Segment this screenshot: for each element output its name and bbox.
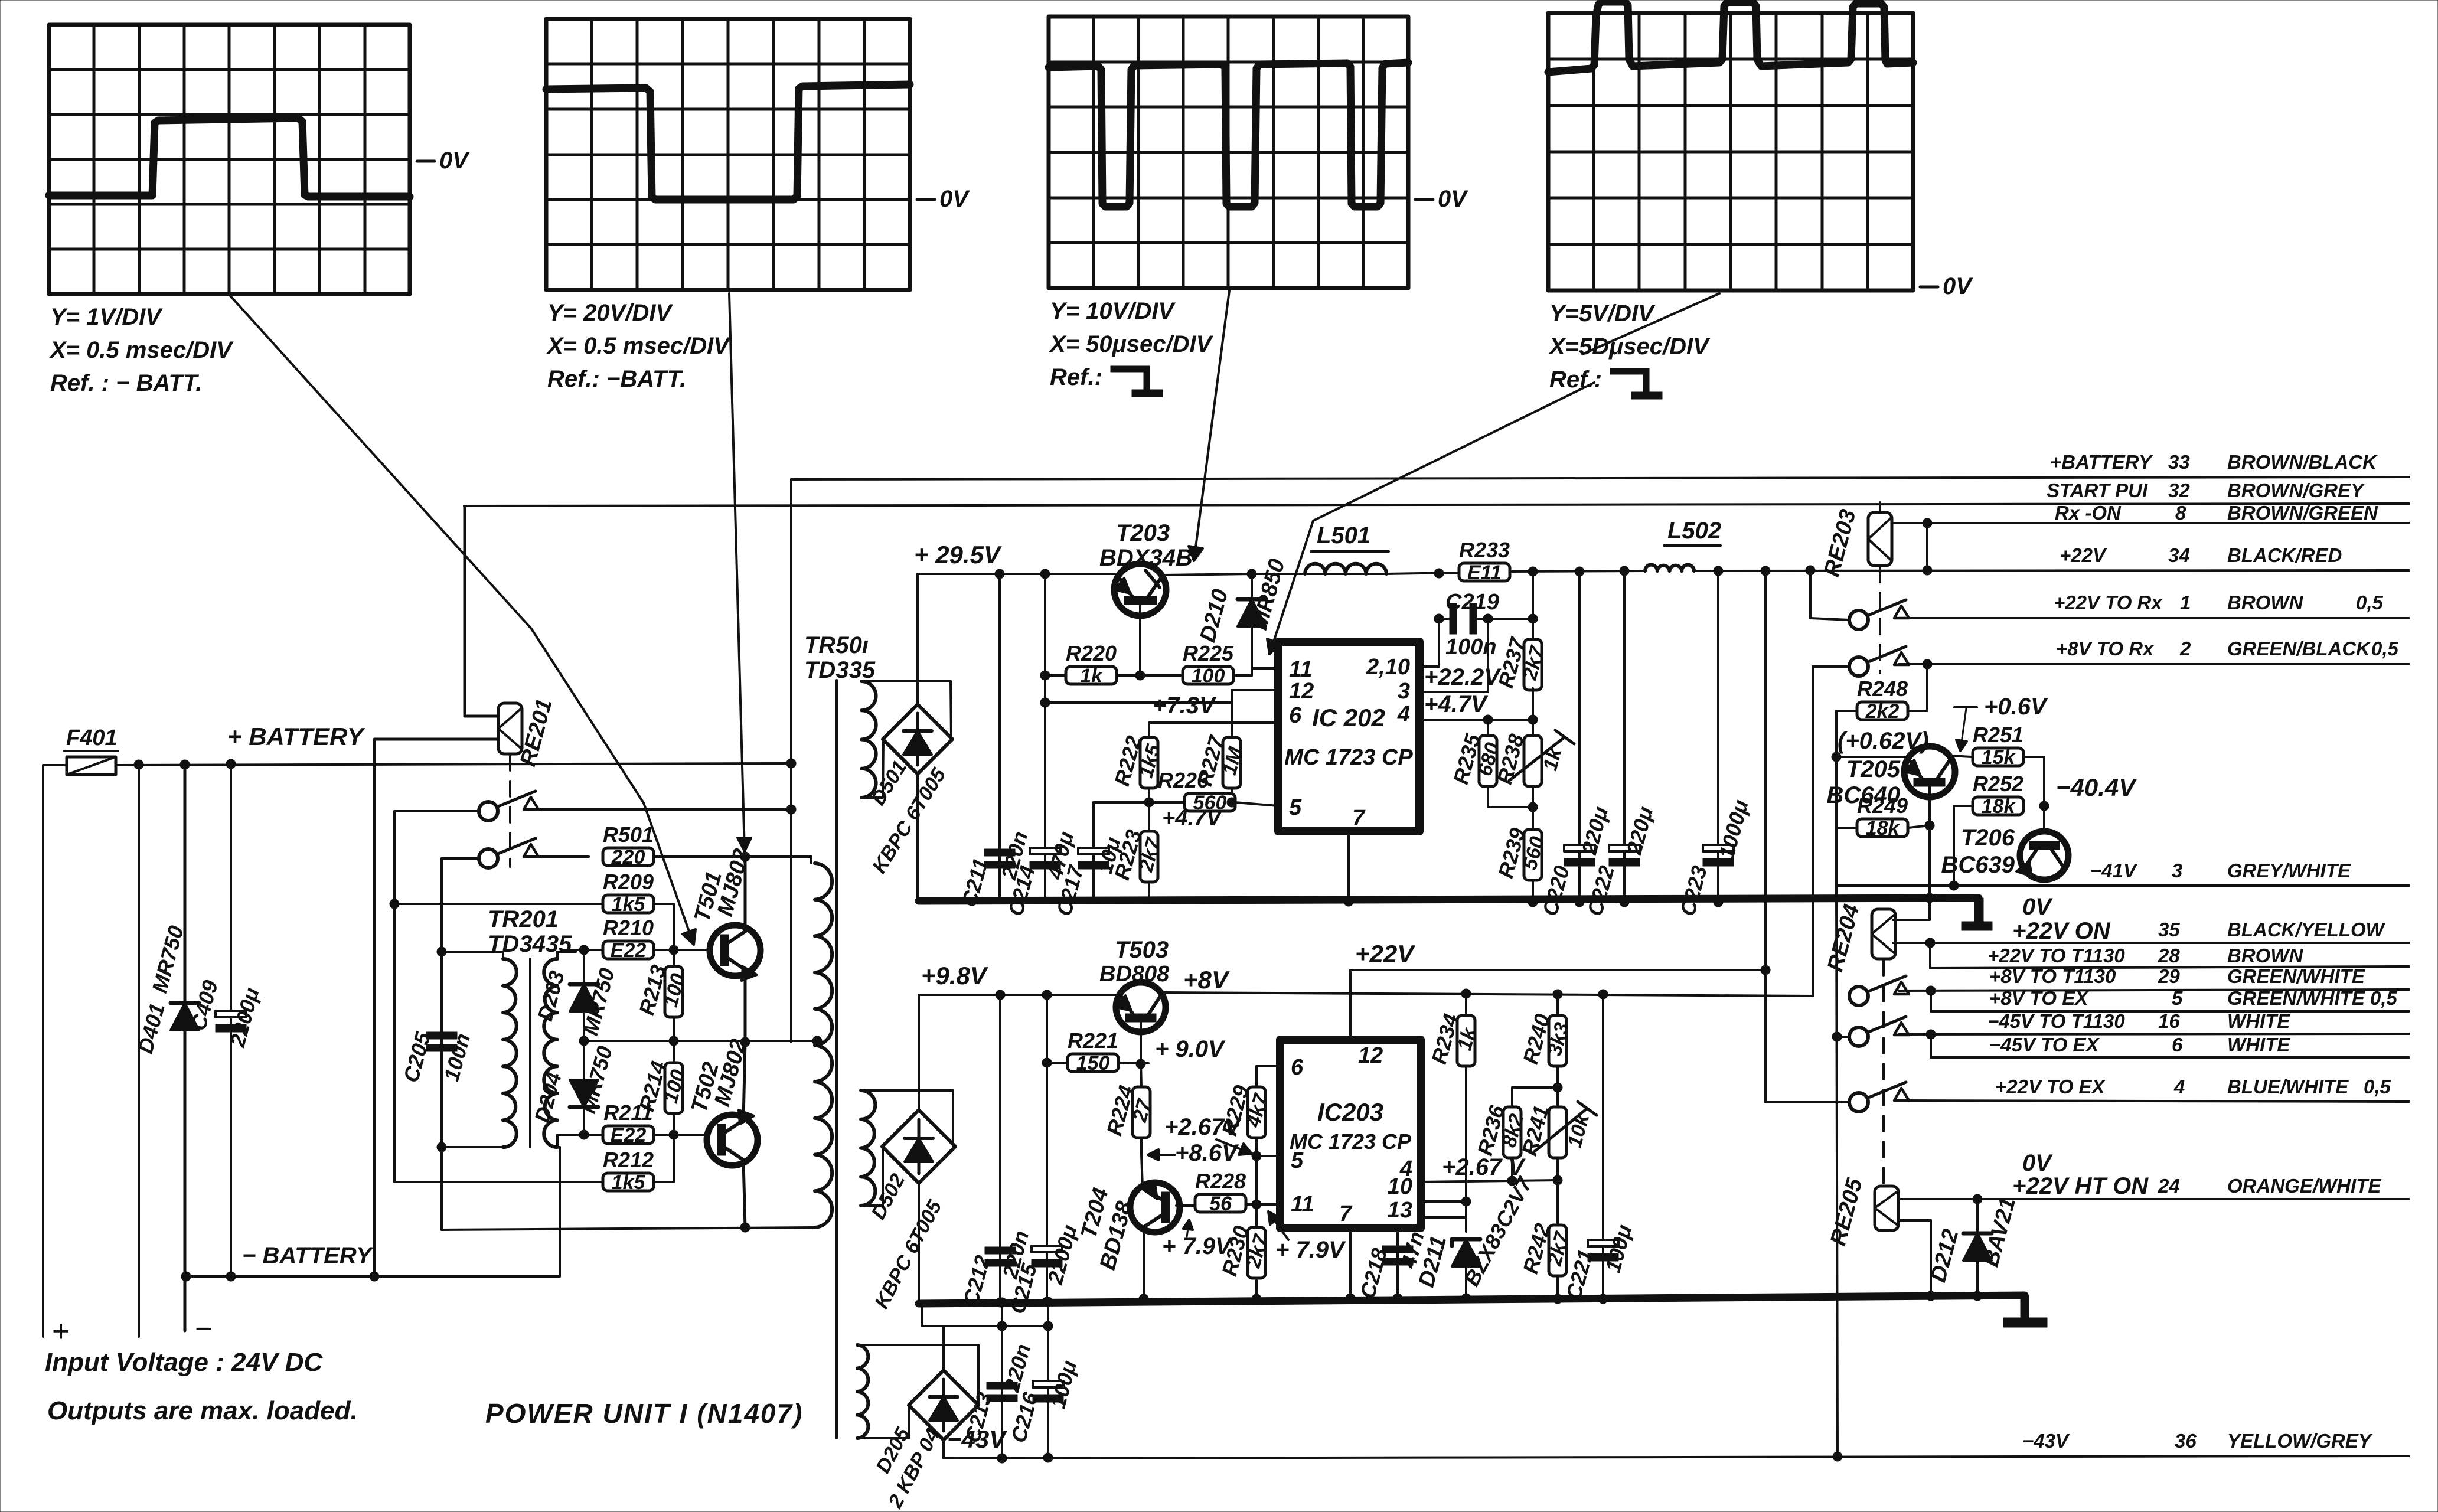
wire RE203 dashed actuator: [1879, 567, 1881, 673]
transistor T502 MJ802: [687, 1036, 758, 1165]
switch contact RE204-2 -45V: [1849, 1017, 1909, 1046]
pointer line from panel 4 to IC202 pin 11 wire: [1267, 383, 1594, 654]
wire R226 row pin 5: [1094, 798, 1278, 807]
svg-text:+22V ON: +22V ON: [2012, 918, 2111, 944]
svg-text:TR201: TR201: [488, 906, 559, 932]
svg-text:56: 56: [1209, 1193, 1232, 1215]
wire switch S2 output row to R501: [528, 855, 589, 858]
wire +22V TO T1130 output line 28: [1930, 966, 2409, 968]
svg-text:X=5Dμsec/DIV: X=5Dμsec/DIV: [1548, 334, 1711, 360]
wire T205 base row: [1832, 752, 1905, 762]
resistor R241 10k variable vertical: [1517, 1088, 1597, 1180]
svg-text:−40.4V: −40.4V: [2056, 773, 2137, 801]
svg-text:0V: 0V: [2022, 1150, 2053, 1176]
resistor R228 56: [1195, 1169, 1246, 1215]
svg-text:4: 4: [2173, 1076, 2185, 1098]
switch contact RE204-1 +8V: [1849, 976, 1909, 1005]
svg-text:TD335: TD335: [804, 657, 876, 683]
svg-text:MC 1723 CP: MC 1723 CP: [1284, 745, 1413, 770]
resistor R238 1k variable vertical: [1492, 730, 1574, 812]
svg-text:0V: 0V: [939, 186, 970, 212]
resistor R223 2k7 vertical: [1109, 802, 1166, 901]
switch contact RE203-2 +8V TO Rx: [1849, 646, 1909, 676]
svg-text:Y=5V/DIV: Y=5V/DIV: [1549, 301, 1656, 326]
wire R248 left to node A: [1836, 711, 1856, 757]
resistor R240 3k3 vertical: [1518, 994, 1574, 1092]
resistor R501 220: [603, 822, 654, 868]
node 0V +22V HT ON labels: [2012, 1150, 2149, 1199]
bridge rectifier D205 2KBP04: [872, 1370, 978, 1512]
svg-text:16: 16: [2158, 1010, 2180, 1032]
switch contact S2 of RE201: [479, 838, 538, 868]
wire + input left leg: [42, 765, 44, 1337]
wire 0V thick rail channel 2: [919, 1294, 2025, 1307]
wire R221 row: [1042, 1058, 1148, 1067]
svg-text:+22.2V: +22.2V: [1424, 664, 1502, 690]
svg-text:33: 33: [2168, 451, 2190, 473]
svg-text:R249: R249: [1857, 793, 1908, 818]
svg-text:24: 24: [2158, 1175, 2180, 1197]
svg-text:BROWN: BROWN: [2227, 592, 2303, 613]
svg-text:Ref. : − BATT.: Ref. : − BATT.: [50, 370, 202, 396]
transformer TR501 TD335 label: [804, 632, 876, 683]
transformer TR201 core: [529, 959, 531, 1147]
diode D203 MR750: [533, 950, 619, 1041]
relay RE203: [1819, 507, 1892, 579]
wire +battery down to transformer centre tap: [786, 479, 796, 1042]
wire -battery to RE201 leg: [373, 739, 376, 1276]
wire IC203 pin 7 to 0V rail 2: [1346, 1228, 1355, 1303]
wire D502 winding bottom to left vertex: [861, 1147, 883, 1206]
svg-text:BROWN/GREEN: BROWN/GREEN: [2227, 502, 2378, 524]
label output 5 +8V TO EX: [1989, 987, 2398, 1009]
svg-text:−45V TO T1130: −45V TO T1130: [1987, 1010, 2125, 1032]
svg-text:36: 36: [2175, 1430, 2197, 1452]
svg-text:6: 6: [2172, 1034, 2183, 1056]
svg-text:0,5: 0,5: [2371, 638, 2399, 659]
wire R209 row: [390, 899, 674, 950]
node +4.7V label at pin5: [1162, 806, 1223, 831]
oscillogram panel 3 grid and waveform: [1049, 17, 1468, 397]
svg-text:TD3435: TD3435: [488, 931, 572, 957]
resistor R224 27 vertical: [1102, 1064, 1156, 1154]
wire IC202 pin 3 +22.2V: [1419, 619, 1502, 692]
svg-text:IC203: IC203: [1317, 1098, 1383, 1126]
svg-text:Ref.:: Ref.:: [1549, 367, 1602, 393]
svg-text:0V: 0V: [1438, 186, 1468, 212]
transistor T206 BC639: [1941, 825, 2068, 880]
svg-text:GREEN/WHITE 0,5: GREEN/WHITE 0,5: [2227, 987, 2398, 1009]
svg-text:12: 12: [1289, 679, 1314, 704]
node -40.4V label: [2056, 773, 2137, 801]
svg-text:−: −: [195, 1312, 213, 1346]
wire START PUI output line 32: [464, 504, 2409, 506]
svg-text:+ 29.5V: + 29.5V: [914, 541, 1002, 569]
wire +22V TO Rx output line 1: [1899, 617, 2409, 619]
svg-text:+22V: +22V: [2060, 544, 2107, 566]
svg-text:0V: 0V: [439, 148, 470, 174]
resistor R242 2k7 vertical: [1518, 1180, 1574, 1304]
capacitor C211 220n: [957, 574, 1032, 909]
node +7.9V label below T204: [1162, 1220, 1233, 1259]
capacitor C221 100u: [1561, 994, 1636, 1304]
svg-text:Input Voltage : 24V DC: Input Voltage : 24V DC: [45, 1348, 323, 1377]
capacitor C216 100u: [1006, 1297, 1081, 1458]
wire +22V HT ON output line 24: [1977, 1198, 2409, 1200]
svg-text:BLACK/RED: BLACK/RED: [2227, 544, 2342, 566]
pointer line from panel 2 to T501 collector node: [729, 293, 751, 851]
wire R251 right to -40.4V node: [2023, 757, 2049, 832]
svg-text:R220: R220: [1066, 641, 1117, 665]
wire +BATTERY rail: [43, 763, 791, 765]
svg-text:R212: R212: [603, 1148, 654, 1172]
svg-text:BROWN/BLACK: BROWN/BLACK: [2227, 451, 2378, 473]
wire R249 right to T205 collector: [1908, 825, 1930, 828]
svg-text:0,5: 0,5: [2364, 1076, 2391, 1098]
wire second row from C214 node: [1040, 690, 1278, 707]
svg-text:2: 2: [2179, 638, 2191, 659]
svg-text:32: 32: [2168, 479, 2190, 501]
svg-text:R501: R501: [603, 822, 654, 847]
svg-text:BROWN/GREY: BROWN/GREY: [2227, 479, 2365, 501]
wire +29.5V rail: [919, 569, 1115, 579]
wire IC202 pin 4 +4.7V row: [1419, 691, 1538, 724]
label output 1 +22V TO Rx: [2054, 592, 2384, 613]
node - terminal: [195, 1312, 213, 1346]
wire C219 right to R237: [1488, 573, 1538, 641]
svg-text:ORANGE/WHITE: ORANGE/WHITE: [2227, 1175, 2381, 1197]
resistor R212 1k5: [603, 1148, 654, 1194]
resistor R237 2k7 vertical: [1493, 634, 1549, 735]
svg-text:R211: R211: [603, 1100, 652, 1125]
wire D205 winding top to right vertex: [857, 1345, 978, 1405]
wire RE201 lower left to -battery leg: [374, 738, 498, 741]
inductor L502: [1645, 518, 1721, 571]
svg-text:TR50ı: TR50ı: [804, 632, 869, 658]
wire T501 collector: [744, 857, 747, 929]
svg-text:+BATTERY: +BATTERY: [2050, 451, 2153, 473]
svg-text:IC 202: IC 202: [1312, 704, 1385, 731]
svg-text:18k: 18k: [1866, 817, 1901, 840]
node -43V label left: [947, 1425, 1007, 1453]
node +BATTERY label: [227, 723, 366, 750]
pointer line from panel 3 to T203 collector wire: [1189, 290, 1229, 561]
wire -BATTERY rail: [181, 1147, 560, 1281]
wire switch S1 input: [394, 811, 479, 1182]
transistor T501 MJ802: [690, 846, 761, 981]
wire R220 R225 row: [1040, 668, 1278, 680]
svg-text:R221: R221: [1068, 1028, 1118, 1053]
capacitor C223 1000u: [1675, 571, 1753, 919]
node +7.9V label at pin 11 with arrow: [1268, 1211, 1346, 1263]
svg-text:35: 35: [2158, 919, 2180, 940]
wire D205 winding bottom to left vertex: [857, 1405, 909, 1438]
svg-text:R226: R226: [1158, 768, 1209, 792]
wire D501 winding bottom to left vertex: [861, 740, 883, 798]
svg-text:4: 4: [1397, 702, 1410, 727]
svg-text:R251: R251: [1973, 723, 2023, 747]
svg-text:T203: T203: [1116, 520, 1170, 546]
svg-text:BDX34B: BDX34B: [1099, 545, 1193, 571]
wire D501 plus output up to +29.5V rail: [916, 574, 919, 704]
svg-text:6: 6: [1291, 1055, 1304, 1080]
wire D502 winding top to right vertex: [861, 1090, 953, 1147]
wire +8V TO T1130 output line 29: [1899, 986, 2409, 995]
wire D205 minus output to -43V line: [942, 1440, 945, 1458]
inductor L501: [1305, 522, 1389, 574]
svg-text:+8V TO Rx: +8V TO Rx: [2056, 638, 2155, 659]
resistor R229 4k7 vertical: [1217, 1083, 1273, 1156]
IC202 MC1723CP box: [1278, 642, 1419, 831]
resistor R230 2k7 vertical: [1217, 1204, 1273, 1304]
resistor R252 18k: [1973, 772, 2023, 818]
resistor R236 8k2 vertical: [1473, 1088, 1558, 1181]
svg-text:R233: R233: [1459, 538, 1510, 562]
wire R211 row to T502 base: [564, 1130, 707, 1139]
label output 16 -45V TO T1130: [1987, 1010, 2290, 1032]
wire +22V vertical from rail: [1764, 571, 1767, 1102]
svg-text:1k5: 1k5: [612, 1171, 646, 1194]
ground symbol channel 1 rail: [1962, 898, 1992, 930]
relay RE204: [1823, 902, 1895, 974]
svg-text:+8V TO T1130: +8V TO T1130: [1989, 965, 2116, 987]
resistor R209 1k5: [603, 870, 654, 916]
wire T503 collector +8V line: [1164, 989, 1813, 999]
wire -45V TO T1130 output line 16: [1899, 1030, 2409, 1039]
wire T203 collector to D210 node: [1165, 569, 1386, 579]
wire RE204 dashed actuator: [1882, 960, 1885, 1187]
wire + input second leg: [134, 760, 143, 1337]
label output 3 -41V: [2090, 860, 2351, 881]
wire +22V TO EX switch input: [1765, 1101, 1849, 1103]
svg-text:11: 11: [1291, 1192, 1314, 1217]
wire TR201 top row with C205: [437, 947, 576, 959]
wire TR201 bottom row: [437, 1135, 564, 1152]
svg-text:Y= 1V/DIV: Y= 1V/DIV: [50, 304, 163, 330]
switch contact RE203-1 +22V TO Rx: [1849, 600, 1909, 629]
svg-text:100: 100: [1192, 665, 1225, 687]
transformer TR501 secondary winding lower: [861, 1090, 875, 1206]
wire pin6 +7.3V row: [1149, 721, 1278, 724]
ground symbol channel 2 rail: [2003, 1295, 2047, 1327]
node +8.6V label with arrow: [1148, 1140, 1239, 1166]
node +8V label: [1183, 966, 1230, 994]
capacitor C214 470u: [1003, 574, 1078, 919]
text outputs note: [47, 1396, 358, 1425]
svg-text:5: 5: [2172, 987, 2183, 1009]
svg-text:R210: R210: [603, 916, 654, 940]
svg-text:Y= 10V/DIV: Y= 10V/DIV: [1050, 298, 1176, 324]
wire centre row to winding tap: [584, 1036, 822, 1046]
svg-text:+7.3V: +7.3V: [1153, 693, 1217, 719]
svg-text:+8V: +8V: [1183, 966, 1230, 994]
svg-text:5: 5: [1289, 795, 1302, 820]
resistor R225 100: [1183, 641, 1234, 687]
wire RE201 dashed actuator: [509, 755, 511, 867]
label output 24 +22V HT ON: [2158, 1175, 2381, 1197]
svg-text:BLACK/YELLOW: BLACK/YELLOW: [2227, 919, 2386, 940]
capacitor C212 220n: [958, 995, 1033, 1308]
label output 6 -45V TO EX: [1989, 1034, 2290, 1056]
transformer TR501 primary winding tall: [815, 863, 832, 1227]
svg-text:Outputs are max. loaded.: Outputs are max. loaded.: [47, 1396, 358, 1425]
svg-text:Y= 20V/DIV: Y= 20V/DIV: [547, 300, 673, 326]
node +29.5V label: [914, 541, 1002, 569]
svg-text:7: 7: [1339, 1201, 1353, 1226]
capacitor C205 100n: [399, 1029, 475, 1085]
svg-text:7: 7: [1352, 806, 1366, 831]
wire +22V rail after L502: [1694, 566, 2409, 576]
wire +8V TO EX output line 5: [1931, 991, 2409, 1011]
wire +9.8V rail: [919, 990, 1117, 1000]
pointer line from panel 4 ref to grid: [1582, 293, 1719, 354]
svg-text:WHITE: WHITE: [2227, 1010, 2290, 1032]
svg-text:100n: 100n: [1445, 635, 1497, 659]
svg-text:2k2: 2k2: [1865, 700, 1900, 723]
svg-text:GREY/WHITE: GREY/WHITE: [2227, 860, 2351, 881]
wire bottom row to TR501 winding bottom: [442, 1227, 815, 1230]
wire D502 plus output to +9.8V rail: [918, 995, 920, 1111]
diode D204 MR750: [530, 1036, 617, 1135]
svg-text:5: 5: [1291, 1148, 1304, 1173]
svg-text:GREEN/BLACK: GREEN/BLACK: [2227, 638, 2371, 659]
svg-text:BLUE/WHITE: BLUE/WHITE: [2227, 1076, 2349, 1098]
svg-text:15k: 15k: [1982, 746, 2016, 769]
svg-text:13: 13: [1388, 1198, 1412, 1223]
wire IC202 pin7 to 0V rail: [1344, 831, 1353, 906]
svg-text:1: 1: [2180, 592, 2191, 613]
diode D401 MR750 with vertical wire: [133, 760, 199, 1331]
resistor R221 150: [1068, 1028, 1118, 1075]
svg-text:R209: R209: [603, 870, 654, 894]
svg-text:+ 9.0V: + 9.0V: [1155, 1036, 1226, 1062]
wire IC202 pin 2,10 to C219 left: [1419, 619, 1439, 667]
resistor R222 1k5 vertical: [1109, 723, 1165, 802]
node +2.67V label with arrow: [1164, 1114, 1252, 1155]
wire D205 plus output to 0V stub: [922, 1304, 1053, 1370]
svg-text:WHITE: WHITE: [2227, 1034, 2290, 1056]
wire R501 to T501 collector node: [654, 852, 811, 863]
node + terminal: [52, 1314, 70, 1348]
wire IC203 pin 4 +2.67V row: [1421, 1154, 1562, 1186]
transformer TR501 core: [835, 680, 838, 1438]
resistor R249 18k: [1857, 793, 1908, 840]
capacitor C215 2200u: [1005, 995, 1082, 1317]
svg-text:10: 10: [1388, 1174, 1412, 1199]
svg-text:+ 7.9V: + 7.9V: [1275, 1237, 1346, 1263]
wire -45V switch input: [1837, 1036, 1849, 1038]
node +0.62V label: [1838, 728, 1929, 754]
text input voltage note: [45, 1348, 323, 1377]
svg-text:START PUI: START PUI: [2047, 479, 2148, 501]
wire T503 base down: [1136, 1018, 1145, 1069]
wire switch S1 output to centre-tap feed: [528, 808, 791, 811]
wire RE203 top to START PUI: [1879, 502, 1881, 512]
svg-text:R228: R228: [1195, 1169, 1246, 1193]
svg-text:E22: E22: [611, 1124, 647, 1147]
wire +8V up to switch RE203-2: [1813, 667, 1850, 996]
svg-text:+22V: +22V: [1355, 940, 1415, 968]
wire D501 minus output down to 0V rail: [916, 774, 919, 901]
svg-text:T206: T206: [1961, 825, 2015, 851]
resistor R251 15k: [1973, 723, 2023, 769]
svg-text:X= 0.5 msec/DIV: X= 0.5 msec/DIV: [49, 337, 234, 363]
oscillogram panel 2 grid and waveform: [546, 19, 970, 392]
resistor R239 560 vertical: [1493, 807, 1549, 907]
svg-text:+9.8V: +9.8V: [921, 962, 988, 990]
svg-text:0V: 0V: [1943, 273, 1973, 299]
svg-text:+22V TO T1130: +22V TO T1130: [1987, 945, 2125, 966]
bridge rectifier D502 KBPC6T005: [867, 1110, 955, 1312]
wire RE204 coil to +22V ON node: [1893, 938, 1935, 968]
transformer TR201 secondary winding: [544, 959, 557, 1147]
wire D501 winding top to right vertex: [861, 681, 951, 738]
wire R229 junction down to R230: [1255, 1156, 1258, 1204]
svg-text:− BATTERY: − BATTERY: [242, 1243, 374, 1269]
svg-text:YELLOW/GREY: YELLOW/GREY: [2227, 1430, 2373, 1452]
resistor R214 100 vertical: [634, 1041, 690, 1135]
diode D210 MR850: [1195, 556, 1290, 675]
wire -41V output line 3: [1836, 884, 2409, 887]
transformer TR501 secondary winding 3: [857, 1345, 868, 1438]
svg-text:3: 3: [1398, 679, 1410, 704]
svg-text:BD808: BD808: [1099, 962, 1170, 987]
wire +22V feed to IC203 pin 12: [1350, 965, 1770, 1040]
wire R210 row to T501 base: [564, 945, 709, 955]
transistor T503 BD808: [1099, 937, 1170, 1032]
fuse F401: [64, 726, 118, 775]
svg-text:POWER UNIT I (N1407): POWER UNIT I (N1407): [485, 1398, 803, 1429]
pointer line from panel 1 to T501 base: [230, 295, 696, 945]
zener diode D211 BZX83C2V7: [1414, 1173, 1538, 1303]
label output 34 +22V: [2060, 544, 2342, 566]
wire node A down to -41V line and -43V: [1832, 828, 1842, 1457]
wire T502 emitter up to centre node: [743, 1042, 745, 1119]
resistor R235 680 vertical: [1448, 720, 1533, 807]
wire R252 left to base drop: [1949, 806, 1973, 890]
label output 32 START PUI: [2047, 479, 2365, 501]
svg-text:8: 8: [2175, 502, 2186, 524]
label output 28 +22V TO T1130: [1987, 945, 2303, 966]
svg-text:+22V TO Rx: +22V TO Rx: [2054, 592, 2163, 613]
svg-text:−41V: −41V: [2090, 860, 2138, 881]
wire T204 collector node: [1141, 1154, 1143, 1187]
resistor R226 560: [1158, 768, 1235, 814]
svg-text:BC639: BC639: [1941, 852, 2015, 878]
wire RE201 left to START PUI line: [465, 507, 498, 716]
svg-text:BROWN: BROWN: [2227, 945, 2303, 966]
transistor T203 BDX34B: [1099, 520, 1193, 616]
resistor R233 E11: [1459, 538, 1510, 584]
wire R248 right up to switch node: [1908, 664, 1927, 711]
svg-text:3: 3: [2172, 860, 2182, 881]
svg-text:11: 11: [1289, 657, 1312, 682]
capacitor C217 10u: [1052, 802, 1125, 919]
wire -45V TO EX output line 6: [1931, 1034, 2409, 1057]
svg-text:T205: T205: [1846, 756, 1901, 782]
svg-text:12: 12: [1358, 1043, 1383, 1068]
wire +BATTERY output line 33: [791, 477, 2409, 479]
label output 4 +22V TO EX: [1995, 1076, 2391, 1098]
resistor R210 E22: [603, 916, 654, 962]
resistor R234 1k vertical: [1427, 994, 1481, 1201]
svg-text:Ref.:: Ref.:: [1050, 364, 1102, 390]
wire T205 collector down: [1925, 785, 1934, 903]
svg-text:R252: R252: [1973, 772, 2023, 796]
label output 33 +BATTERY: [2050, 451, 2378, 473]
wire RE204 coil to 0V rail: [1893, 898, 1930, 920]
svg-text:X= 50μsec/DIV: X= 50μsec/DIV: [1049, 331, 1214, 357]
